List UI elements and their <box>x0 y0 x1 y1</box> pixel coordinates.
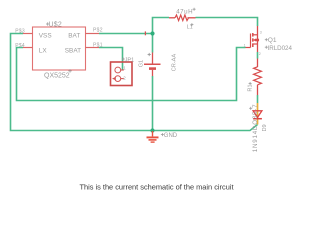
battery G1 minus plate <box>149 67 156 70</box>
battery G1 top lead <box>152 53 154 65</box>
47uH origin cross <box>193 8 196 11</box>
svg-text:Q1: Q1 <box>268 37 277 44</box>
JP1 pin 2 stub <box>121 78 124 80</box>
wire: R1 to diode D9 <box>257 95 259 103</box>
wire: GND net P$3 to diode bottom <box>11 34 258 131</box>
svg-text:This is the current schematic: This is the current schematic of the mai… <box>79 182 233 191</box>
Q1 source dot <box>256 38 259 41</box>
battery G1 bottom lead <box>152 70 154 76</box>
diode D9 cathode bar <box>253 118 262 120</box>
origin cross of U$2 <box>46 22 49 25</box>
svg-text:GND: GND <box>164 133 178 139</box>
svg-text:G1: G1 <box>139 60 145 67</box>
diode D9 triangle <box>253 111 262 118</box>
junction at GND net / battery bottom <box>150 128 154 132</box>
Q1 gate lead <box>246 47 251 49</box>
resistor R1 zigzag <box>254 67 262 85</box>
wire: BAT net P$2 to junction <box>99 33 153 35</box>
IRLD024 origin cross <box>265 46 268 49</box>
ground symbol <box>147 131 159 142</box>
svg-text:U$2: U$2 <box>49 22 62 29</box>
svg-text:2: 2 <box>259 52 261 56</box>
Q1 bulk arrowhead <box>253 39 256 42</box>
JP1 pin 2 arrow <box>112 77 116 80</box>
svg-text:P$1: P$1 <box>93 42 103 48</box>
svg-text:P$4: P$4 <box>15 43 25 49</box>
Q1 gate bar <box>250 34 252 48</box>
svg-text:P$2: P$2 <box>93 28 103 34</box>
battery plus sign <box>148 53 151 56</box>
battery G1 plus plate <box>144 63 161 65</box>
svg-text:LX: LX <box>39 47 48 54</box>
inductor L1 zigzag <box>175 15 189 21</box>
JP1 pin 1 stub <box>121 69 124 71</box>
junction at BAT net / battery top <box>150 31 154 35</box>
Q1 channel dash top <box>252 33 254 37</box>
transistor Q1 drain lead <box>257 26 259 40</box>
svg-text:1: 1 <box>244 44 246 48</box>
svg-text:R1: R1 <box>248 84 254 91</box>
resistor R1 bottom lead <box>257 85 259 95</box>
svg-text:VSS: VSS <box>39 32 52 39</box>
pin P$3 <box>23 33 33 35</box>
svg-text:QX5252: QX5252 <box>44 73 70 80</box>
wire: junction up to inductor <box>153 18 170 34</box>
inductor L1 right lead <box>188 17 196 19</box>
wire: LX net P$4 to Q1 gate <box>17 48 246 101</box>
svg-text:P$3: P$3 <box>15 28 25 34</box>
svg-text:3: 3 <box>260 31 262 35</box>
pin P$2 <box>86 33 100 35</box>
JP1 pin 2 circle <box>115 76 121 82</box>
Q1 source connect <box>253 43 258 45</box>
JP1 pin 1 circle <box>115 67 121 73</box>
svg-text:47uH: 47uH <box>176 9 193 16</box>
wire: junction down to battery + <box>152 34 154 53</box>
Q1 channel dash bottom <box>252 43 254 47</box>
pin P$4 <box>23 47 33 49</box>
connector JP1 box <box>111 62 133 86</box>
svg-text:CR-AA: CR-AA <box>172 54 178 72</box>
wire: inductor to Q1 drain <box>196 18 258 27</box>
GND origin cross <box>161 133 164 136</box>
battery origin tick <box>144 31 146 35</box>
svg-text:BAT: BAT <box>68 32 80 39</box>
Q1 bulk line <box>253 39 257 41</box>
wire: Q1 source to R1 <box>257 52 259 59</box>
svg-text:D9: D9 <box>262 124 268 131</box>
origin cross of QX5252 value <box>68 69 71 72</box>
Q1 origin cross <box>265 38 268 41</box>
diode D9 anode lead highlighted <box>257 103 259 125</box>
wire: battery - down to GND junction <box>152 76 154 130</box>
Q1 drain connect <box>253 34 258 36</box>
D9 origin cross <box>249 107 252 110</box>
resistor R1 top lead <box>257 59 259 68</box>
R1 origin cross <box>249 82 252 85</box>
Q1 source lead <box>257 40 259 52</box>
JP1 origin cross <box>122 58 125 61</box>
IC U$2 body <box>33 27 86 70</box>
inductor L1 left lead <box>169 17 175 19</box>
svg-text:JP1: JP1 <box>125 57 135 63</box>
wire: SBAT P$1 to JP1 pin 1 <box>99 48 123 71</box>
L1 origin cross <box>190 23 193 26</box>
pin P$1 <box>86 47 100 49</box>
svg-text:SBAT: SBAT <box>65 47 81 54</box>
svg-text:1N914DO35-7: 1N914DO35-7 <box>252 104 259 153</box>
Q1 channel dash middle <box>252 38 254 41</box>
svg-text:IRLD024: IRLD024 <box>268 45 293 52</box>
